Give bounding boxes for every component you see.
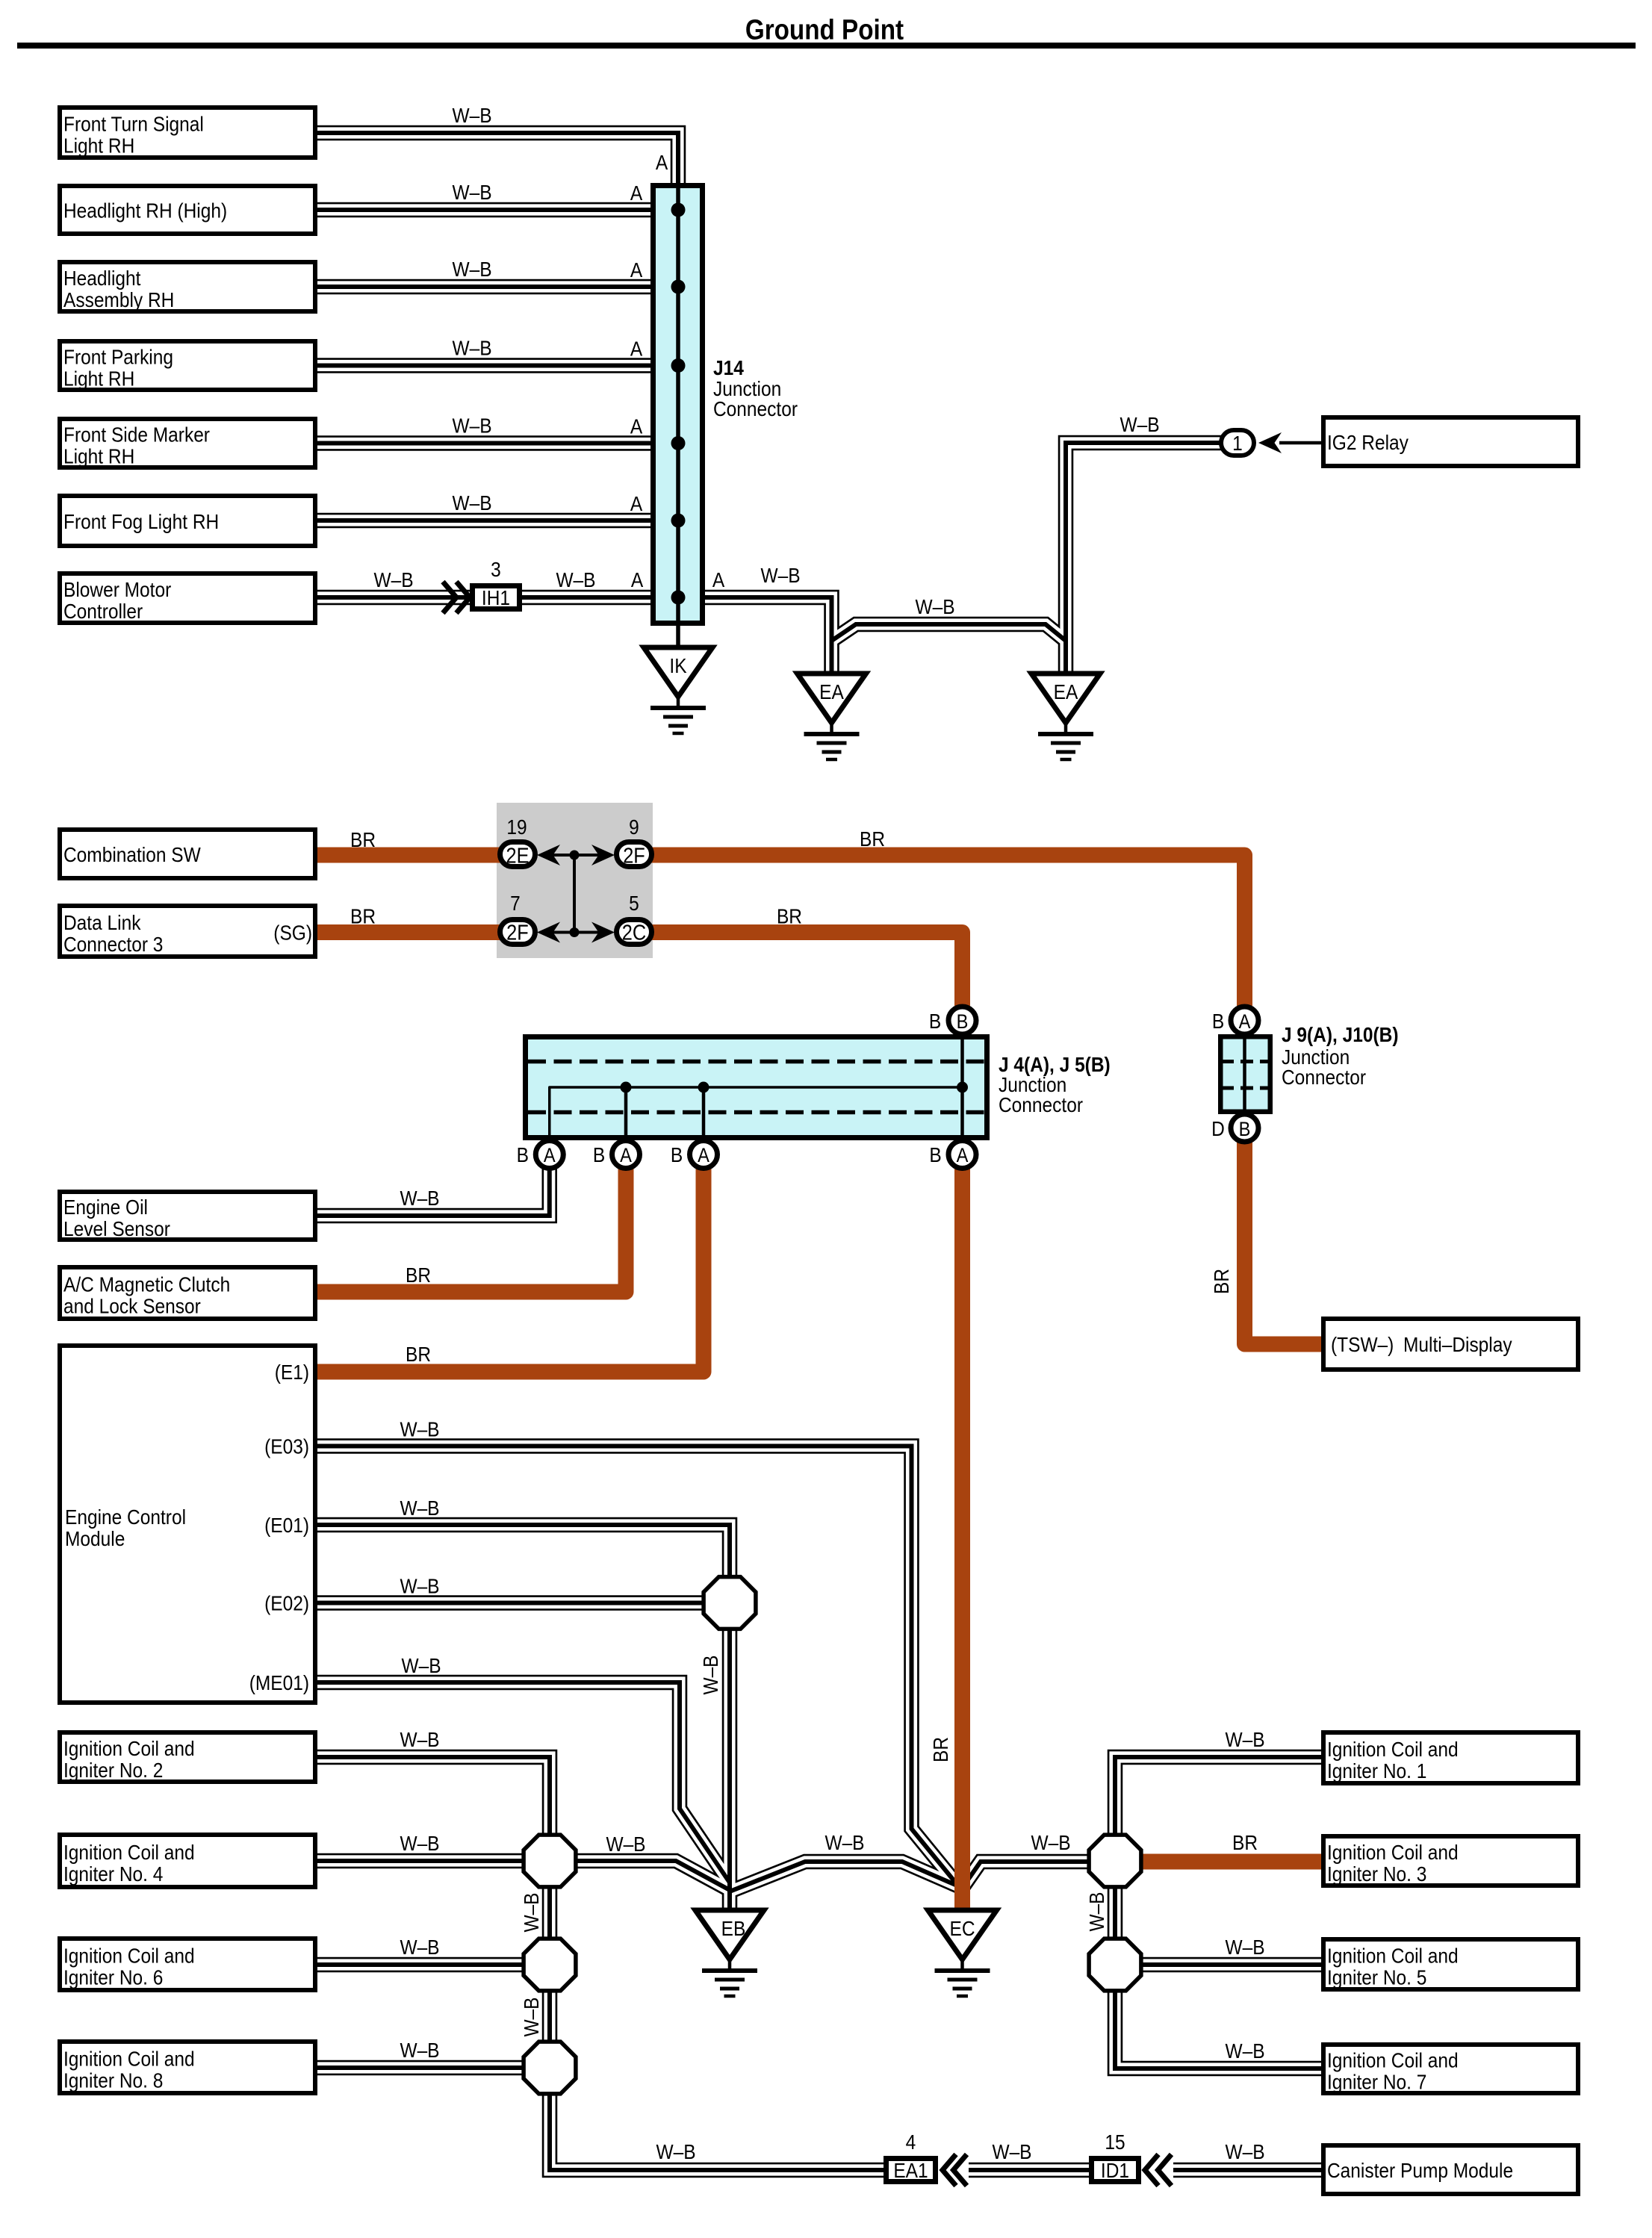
svg-text:A: A	[630, 491, 643, 515]
svg-text:Ignition Coil and: Ignition Coil and	[63, 1944, 195, 1968]
rotated wire label BR	[928, 1737, 952, 1762]
wire W-B Front Side Marker Light RH to J14 (outline)	[317, 435, 653, 451]
svg-text:Igniter No. 8: Igniter No. 8	[63, 2068, 163, 2092]
splice dot row 1	[570, 851, 580, 860]
arrow into 2F row2	[537, 922, 560, 943]
svg-text:EC: EC	[949, 1916, 975, 1940]
svg-text:W–B: W–B	[452, 336, 491, 360]
svg-text:W–B: W–B	[373, 568, 413, 591]
svg-text:BR: BR	[350, 904, 376, 928]
wire W-B Headlight Assembly RH to J14	[317, 285, 653, 289]
svg-text:(E02): (E02)	[264, 1591, 309, 1615]
svg-text:Multi–Display: Multi–Display	[1403, 1332, 1512, 1356]
J14 junction dot	[671, 436, 686, 450]
svg-text:W–B: W–B	[992, 2139, 1031, 2163]
svg-text:A: A	[630, 181, 643, 205]
splice octagon coils 5	[1089, 1939, 1141, 1991]
svg-text:Front Side Marker: Front Side Marker	[63, 423, 210, 447]
wire W-B ECM (ME01) to ground EB	[317, 1682, 730, 1883]
svg-text:Ground Point: Ground Point	[745, 13, 904, 46]
svg-text:W–B: W–B	[452, 103, 491, 127]
svg-text:BR: BR	[406, 1342, 431, 1366]
connector oval 2E	[500, 842, 535, 867]
wire W-B Front Turn Signal to J14 pin A (outline)	[317, 133, 678, 186]
arrow into 2F row1	[591, 845, 615, 865]
component box Engine Oil Level Sensor	[60, 1192, 315, 1240]
splice octagon E02	[704, 1577, 756, 1629]
wire BR ECM (E1) to J4 pin A	[317, 1163, 704, 1372]
ground symbol EA left	[798, 674, 866, 723]
arrow into 2C	[591, 922, 615, 943]
svg-text:W–B: W–B	[452, 257, 491, 281]
svg-text:IH1: IH1	[482, 585, 510, 609]
svg-text:EA: EA	[819, 680, 844, 703]
svg-text:2E: 2E	[506, 843, 529, 868]
splice octagon coils 1/3	[1089, 1835, 1141, 1887]
svg-text:(E03): (E03)	[264, 1435, 309, 1458]
wire W-B ECM (E01) to junction (outline)	[317, 1525, 730, 1578]
splice octagon coils 2/4	[524, 1835, 576, 1887]
wire BR 2F to J9 junction pin A	[650, 855, 1245, 1006]
wire W-B Ignition Coil No.1 to junction (gap)	[1115, 1757, 1321, 1836]
svg-text:Headlight RH (High): Headlight RH (High)	[63, 199, 227, 223]
svg-text:W–B: W–B	[1225, 1727, 1264, 1751]
svg-text:A/C Magnetic Clutch: A/C Magnetic Clutch	[63, 1272, 230, 1296]
svg-text:and Lock Sensor: and Lock Sensor	[63, 1294, 201, 1318]
svg-text:W–B: W–B	[400, 1727, 439, 1751]
svg-text:Igniter No. 7: Igniter No. 7	[1327, 2070, 1426, 2094]
gray highlight panel	[497, 803, 653, 958]
component box Front Side Marker Light RH	[60, 419, 315, 467]
svg-text:(E1): (E1)	[275, 1360, 309, 1384]
connector oval 2F row2	[500, 920, 535, 945]
wire W-B Ignition Coil No.4 to junction	[317, 1859, 524, 1863]
svg-text:Engine Oil: Engine Oil	[63, 1195, 148, 1219]
wire W-B junction to ground EB link (outline)	[575, 1861, 730, 1890]
wire W-B ID1 to Canister Pump Module	[1173, 2168, 1324, 2172]
svg-text:Engine Control: Engine Control	[65, 1505, 186, 1529]
component box Headlight Assembly RH	[60, 262, 315, 311]
wire W-B ground EB to ground EC link (gap)	[730, 1862, 960, 1892]
wire W-B ECM (E02) to junction (outline)	[317, 1595, 704, 1611]
component box A/C Magnetic Clutch and Lock Sensor	[60, 1267, 315, 1319]
svg-text:A: A	[630, 258, 643, 282]
wire W-B Front Side Marker Light RH to J14 (gap)	[317, 438, 653, 449]
rotated wire label W–B	[519, 1892, 543, 1932]
wire W-B IH1 to J14 (outline)	[522, 590, 653, 606]
junction connector J4/J5 fill	[523, 1034, 990, 1140]
component box Multi-Display	[1323, 1319, 1578, 1370]
J4/J5 junction dot	[621, 1082, 632, 1093]
svg-text:19: 19	[506, 815, 527, 839]
J4/J5 dashed row B	[528, 1110, 984, 1115]
junction connector J14 border	[653, 186, 703, 624]
wire W-B Ignition Coil No.6 to junction (outline)	[317, 1957, 524, 1973]
svg-text:BR: BR	[350, 827, 376, 851]
wire W-B junction to ground EB (gap)	[724, 1628, 735, 1915]
wire W-B Front Side Marker Light RH to J14	[317, 441, 653, 446]
svg-text:W–B: W–B	[519, 1892, 543, 1932]
connector ID1 chevrons	[1145, 2154, 1158, 2186]
connector oval 2C	[617, 920, 652, 945]
svg-text:A: A	[630, 414, 643, 438]
svg-text:W–B: W–B	[1225, 2139, 1264, 2163]
svg-text:W–B: W–B	[760, 563, 800, 587]
svg-text:W–B: W–B	[452, 180, 491, 204]
wire W-B ECM (ME01) to ground EB (outline)	[317, 1682, 730, 1883]
svg-text:Connector 3: Connector 3	[63, 932, 163, 956]
svg-text:(E01): (E01)	[264, 1513, 309, 1537]
wire W-B Front Turn Signal to J14 pin A	[317, 133, 678, 186]
wire W-B IG2 Relay to ground EA (gap)	[1066, 443, 1223, 680]
wire W-B Engine Oil Level Sensor to J4 pin A (outline)	[317, 1163, 550, 1216]
wire W-B junction to Ignition Coil No.7 (outline)	[1115, 1990, 1321, 2068]
svg-text:A: A	[631, 568, 644, 591]
wire W-B Headlight RH (High) to J14	[317, 208, 653, 212]
connector IH1 box	[473, 586, 520, 609]
svg-text:B: B	[957, 1011, 969, 1033]
wire W-B J14 pin A to ground EA	[705, 597, 832, 680]
rotated wire label BR	[1209, 1269, 1233, 1294]
J4/J5 junction dot	[698, 1082, 709, 1093]
wire W-B ground EC to junction link	[963, 1862, 1090, 1886]
component box Ignition Coil and Igniter No. 3	[1323, 1836, 1578, 1886]
svg-text:W–B: W–B	[1031, 1830, 1070, 1854]
wire W-B junction to ground EB (outline)	[722, 1628, 738, 1915]
svg-text:IK: IK	[669, 653, 687, 677]
wire W-B Ignition Coil No.2 to junction	[317, 1757, 550, 1836]
wire W-B ID1 to Canister Pump Module (gap)	[1173, 2164, 1324, 2175]
wire W-B Ignition Coil No.5 to junction (gap)	[1140, 1959, 1321, 1970]
wire W-B junction to junction vert 3-4	[547, 1990, 552, 2043]
svg-text:Front Fog Light RH: Front Fog Light RH	[63, 509, 219, 533]
wire W-B Ignition Coil No.8 to junction	[317, 2066, 524, 2070]
svg-text:D: D	[1211, 1116, 1225, 1140]
wire W-B junction to connector EA1 (gap)	[550, 2093, 886, 2170]
svg-text:4: 4	[906, 2130, 916, 2154]
junction connector J9/J10 fill	[1218, 1034, 1273, 1114]
svg-text:W–B: W–B	[400, 1186, 439, 1210]
wire W-B Engine Oil Level Sensor to J4 pin A (gap)	[317, 1163, 550, 1216]
wire W-B link between EA grounds	[832, 624, 1066, 641]
svg-text:J 9(A), J10(B): J 9(A), J10(B)	[1282, 1022, 1399, 1046]
wire W-B Ignition Coil No.6 to junction (gap)	[317, 1959, 524, 1970]
wire BR Data Link Connector to 2F	[317, 924, 502, 940]
svg-text:W–B: W–B	[656, 2139, 695, 2163]
wire W-B junction to Ignition Coil No.7	[1115, 1990, 1321, 2068]
wire W-B Headlight Assembly RH to J14 (gap)	[317, 281, 653, 292]
svg-text:3: 3	[491, 557, 501, 581]
svg-text:A: A	[544, 1145, 556, 1167]
component box Ignition Coil and Igniter No. 5	[1323, 1939, 1578, 1989]
J14 junction dot	[671, 514, 686, 528]
svg-text:W–B: W–B	[1084, 1892, 1108, 1931]
svg-text:9: 9	[629, 815, 639, 839]
svg-text:Connector: Connector	[713, 397, 798, 420]
wire W-B EA1 to ID1 (gap)	[969, 2164, 1092, 2175]
wire BR J4 pin A to ground EC	[954, 1163, 970, 1913]
svg-text:Connector: Connector	[1282, 1065, 1366, 1089]
svg-text:Light RH: Light RH	[63, 444, 134, 468]
svg-text:W–B: W–B	[452, 414, 491, 438]
ground symbol EC	[928, 1910, 997, 1959]
svg-text:(ME01): (ME01)	[249, 1670, 309, 1694]
component box Canister Pump Module	[1323, 2145, 1578, 2194]
connector ID1 box	[1092, 2159, 1139, 2182]
ground symbol EB	[695, 1910, 764, 1959]
svg-text:A: A	[1239, 1011, 1251, 1033]
wire W-B J14 pin A to ground EA (gap)	[705, 597, 832, 680]
splice octagon coils 6	[524, 1939, 576, 1991]
svg-text:Igniter No. 6: Igniter No. 6	[63, 1965, 163, 1989]
wire W-B ECM (E03) to ground EC	[317, 1446, 957, 1885]
wire W-B Front Parking Light RH to J14	[317, 364, 653, 368]
wire W-B ECM (E02) to junction (gap)	[317, 1597, 704, 1608]
J9/J10 internal bus	[1243, 1036, 1246, 1112]
svg-text:BR: BR	[860, 827, 885, 851]
J4/J5 junction dot	[957, 1082, 968, 1093]
svg-text:5: 5	[629, 891, 639, 915]
svg-text:W–B: W–B	[825, 1830, 864, 1854]
wire W-B Headlight RH (High) to J14 (gap)	[317, 204, 653, 215]
svg-text:B: B	[929, 1143, 941, 1166]
svg-text:Igniter No. 3: Igniter No. 3	[1327, 1862, 1426, 1886]
wire W-B ECM (E01) to junction (gap)	[317, 1525, 730, 1578]
wire W-B Front Fog Light RH to J14 (outline)	[317, 513, 653, 529]
wire W-B Ignition Coil No.2 to junction (gap)	[317, 1757, 550, 1836]
wire W-B Ignition Coil No.5 to junction (outline)	[1140, 1957, 1321, 1973]
wire IG2 relay stub	[1279, 441, 1324, 445]
wire W-B junction to junction vert 2-3	[547, 1886, 552, 1940]
wire W-B junction to junction vert 3-4 (gap)	[544, 1990, 555, 2043]
svg-text:W–B: W–B	[401, 1653, 441, 1677]
svg-text:A: A	[620, 1145, 632, 1167]
wire W-B ECM (E03) to ground EC (outline)	[317, 1446, 957, 1885]
svg-text:Ignition Coil and: Ignition Coil and	[63, 1840, 195, 1864]
svg-text:IG2 Relay: IG2 Relay	[1327, 430, 1409, 454]
component box Ignition Coil and Igniter No. 2	[60, 1732, 315, 1782]
svg-text:Front Turn Signal: Front Turn Signal	[63, 112, 204, 136]
svg-text:(TSW–): (TSW–)	[1331, 1332, 1394, 1356]
svg-text:B: B	[1239, 1119, 1251, 1141]
svg-text:15: 15	[1105, 2130, 1125, 2154]
svg-text:Ignition Coil and: Ignition Coil and	[1327, 1840, 1459, 1864]
wire W-B Ignition Coil No.8 to junction (gap)	[317, 2062, 524, 2073]
svg-text:BR: BR	[777, 904, 802, 928]
wire W-B ECM (E03) to ground EC (gap)	[317, 1446, 957, 1885]
svg-text:A: A	[957, 1145, 969, 1167]
svg-text:W–B: W–B	[400, 1496, 439, 1520]
svg-text:Ignition Coil and: Ignition Coil and	[63, 1736, 195, 1760]
svg-text:2F: 2F	[623, 843, 645, 868]
svg-text:A: A	[630, 337, 643, 361]
wire W-B J14 pin A to ground EA (outline)	[705, 597, 832, 680]
svg-text:A: A	[712, 568, 725, 591]
connector IH1 chevrons	[443, 582, 456, 613]
J4/J5 pin circle A1	[535, 1141, 563, 1169]
component box Data Link Connector 3	[60, 906, 315, 957]
svg-text:Module: Module	[65, 1526, 125, 1550]
svg-text:B: B	[671, 1143, 683, 1166]
splice dot row 2	[570, 927, 580, 937]
J4 pin circle B top	[948, 1007, 976, 1034]
wire W-B junction to ground EB link	[575, 1861, 730, 1890]
J10 pin circle B	[1231, 1114, 1258, 1142]
svg-text:Ignition Coil and: Ignition Coil and	[1327, 1737, 1459, 1761]
wire W-B ECM (ME01) to ground EB (gap)	[317, 1682, 730, 1883]
svg-text:Ignition Coil and: Ignition Coil and	[1327, 2048, 1459, 2072]
svg-text:1: 1	[1232, 431, 1243, 455]
svg-text:W–B: W–B	[452, 491, 491, 515]
wire W-B Ignition Coil No.1 to junction	[1115, 1757, 1321, 1836]
svg-text:W–B: W–B	[1120, 412, 1159, 436]
svg-text:BR: BR	[1209, 1269, 1233, 1294]
wire W-B junction to ground EB link (gap)	[575, 1861, 730, 1890]
component box Ignition Coil and Igniter No. 7	[1323, 2045, 1578, 2093]
svg-text:Level Sensor: Level Sensor	[63, 1216, 170, 1240]
ground symbol IK	[644, 647, 712, 697]
svg-text:A: A	[656, 150, 668, 174]
component box Ignition Coil and Igniter No. 8	[60, 2042, 315, 2093]
svg-text:(SG): (SG)	[273, 921, 312, 945]
component box Headlight RH (High)	[60, 186, 315, 234]
J9 pin circle A	[1231, 1007, 1258, 1034]
rotated wire label W–B	[698, 1655, 722, 1694]
wire W-B Ignition Coil No.4 to junction (gap)	[317, 1855, 524, 1866]
connector EA1 chevrons	[943, 2154, 956, 2186]
wire W-B junction to junction vert 2-3 (gap)	[544, 1886, 555, 1940]
wire W-B junction to connector EA1 (outline)	[550, 2093, 886, 2170]
wire W-B junction to ground EB	[727, 1628, 732, 1915]
J14 junction dot	[671, 358, 686, 373]
wire BR junction to Ignition Coil No.3	[1140, 1854, 1321, 1870]
svg-text:B: B	[517, 1143, 529, 1166]
junction connector J14 fill	[650, 183, 705, 626]
wire W-B ECM (E02) to junction	[317, 1601, 704, 1606]
svg-text:W–B: W–B	[400, 1417, 439, 1441]
svg-text:Headlight: Headlight	[63, 266, 141, 290]
svg-text:B: B	[929, 1009, 941, 1033]
svg-text:Data Link: Data Link	[63, 910, 141, 934]
wire W-B IH1 to J14 (gap)	[522, 591, 653, 603]
svg-text:W–B: W–B	[400, 1574, 439, 1598]
component box Blower Motor Controller	[60, 574, 315, 623]
wire W-B Front Fog Light RH to J14	[317, 518, 653, 523]
component box Front Fog Light RH	[60, 496, 315, 546]
svg-text:A: A	[698, 1145, 709, 1167]
svg-text:W–B: W–B	[400, 1831, 439, 1855]
svg-text:B: B	[1212, 1009, 1224, 1033]
component box Ignition Coil and Igniter No. 6	[60, 1939, 315, 1990]
arrow into 2E	[537, 845, 560, 865]
wire W-B junction to junction vert 3-4 (outline)	[542, 1990, 558, 2043]
svg-text:Assembly RH: Assembly RH	[63, 287, 174, 311]
svg-text:W–B: W–B	[606, 1832, 645, 1856]
wire W-B junction to connector EA1	[550, 2093, 886, 2170]
svg-text:W–B: W–B	[915, 594, 954, 618]
svg-text:BR: BR	[928, 1737, 952, 1762]
J14 junction dot	[671, 591, 686, 605]
J4/J5 pin circle A3	[690, 1141, 718, 1169]
J4/J5 pin circle A2	[612, 1141, 640, 1169]
wire W-B junction to junction vert 5-6	[1113, 1886, 1117, 1940]
svg-text:Canister Pump Module: Canister Pump Module	[1327, 2158, 1513, 2182]
J14 internal bus	[676, 184, 680, 647]
svg-text:EA: EA	[1054, 680, 1078, 703]
wire W-B ground EB to ground EC link (outline)	[730, 1862, 960, 1892]
title rule	[17, 43, 1636, 49]
wire BR J9 pin B to Multi-Display	[1245, 1142, 1322, 1344]
wire W-B IH1 to J14	[522, 595, 653, 600]
svg-text:W–B: W–B	[400, 1935, 439, 1959]
component box IG2 Relay	[1323, 417, 1578, 466]
splice octagon coils 8	[524, 2042, 576, 2094]
rotated wire label W–B	[1084, 1892, 1108, 1931]
wire W-B IG2 Relay to ground EA (outline)	[1066, 443, 1223, 680]
wire W-B junction to junction vert 5-6 (gap)	[1109, 1886, 1120, 1940]
svg-text:EA1: EA1	[893, 2158, 928, 2182]
svg-text:Ignition Coil and: Ignition Coil and	[63, 2047, 195, 2071]
wire W-B junction to junction vert 2-3 (outline)	[542, 1886, 558, 1940]
wire W-B ground EB to ground EC link	[730, 1862, 960, 1892]
connector oval 1 IG2 relay	[1221, 430, 1254, 456]
svg-text:2C: 2C	[622, 920, 646, 945]
J14 junction dot	[671, 280, 686, 294]
svg-text:Controller: Controller	[63, 599, 143, 623]
svg-text:Ignition Coil and: Ignition Coil and	[1327, 1944, 1459, 1968]
J14 junction dot	[671, 203, 686, 217]
svg-text:W–B: W–B	[519, 1997, 543, 2036]
wire W-B ground EC to junction link (gap)	[963, 1862, 1090, 1886]
splice bus row 2	[549, 931, 601, 934]
rotated wire label W–B	[519, 1997, 543, 2036]
wire W-B Ignition Coil No.5 to junction	[1140, 1962, 1321, 1967]
component box Engine Control Module	[60, 1346, 315, 1703]
svg-text:Blower Motor: Blower Motor	[63, 577, 171, 601]
svg-text:W–B: W–B	[1225, 1935, 1264, 1959]
connector EA1 box	[886, 2159, 936, 2182]
svg-text:Light RH: Light RH	[63, 367, 134, 391]
wire W-B Blower Motor Controller to IH1 (gap)	[317, 591, 470, 603]
wire W-B link between EA grounds (outline)	[832, 624, 1066, 641]
svg-text:Igniter No. 2: Igniter No. 2	[63, 1758, 163, 1782]
wire W-B Ignition Coil No.1 to junction (outline)	[1115, 1757, 1321, 1836]
wire BR A/C Magnetic Clutch to J4 pin A	[317, 1163, 626, 1292]
svg-text:W–B: W–B	[698, 1655, 722, 1694]
connector oval 2F row1	[617, 842, 652, 867]
wire W-B Ignition Coil No.4 to junction (outline)	[317, 1853, 524, 1869]
svg-text:Igniter No. 5: Igniter No. 5	[1327, 1965, 1426, 1989]
svg-text:W–B: W–B	[400, 2038, 439, 2062]
wire W-B Front Parking Light RH to J14 (outline)	[317, 358, 653, 373]
wire W-B IG2 Relay to ground EA	[1066, 443, 1223, 680]
svg-text:W–B: W–B	[1225, 2039, 1264, 2063]
svg-text:Combination SW: Combination SW	[63, 842, 201, 866]
svg-text:Front Parking: Front Parking	[63, 345, 173, 369]
svg-text:Igniter No. 4: Igniter No. 4	[63, 1862, 163, 1886]
svg-text:2F: 2F	[506, 920, 529, 945]
J4/J5 pin circle A4	[948, 1141, 976, 1169]
wire W-B ECM (E01) to junction	[317, 1525, 730, 1578]
junction connector J9/J10 border	[1220, 1036, 1270, 1112]
wire W-B EA1 to ID1	[969, 2168, 1092, 2172]
splice bus vertical	[573, 855, 576, 933]
svg-text:7: 7	[510, 891, 521, 915]
component box Front Turn Signal Light RH	[60, 108, 315, 158]
wire W-B junction to Ignition Coil No.7 (gap)	[1115, 1990, 1321, 2068]
wire W-B Engine Oil Level Sensor to J4 pin A	[317, 1163, 550, 1216]
wire W-B Ignition Coil No.2 to junction (outline)	[317, 1757, 550, 1836]
